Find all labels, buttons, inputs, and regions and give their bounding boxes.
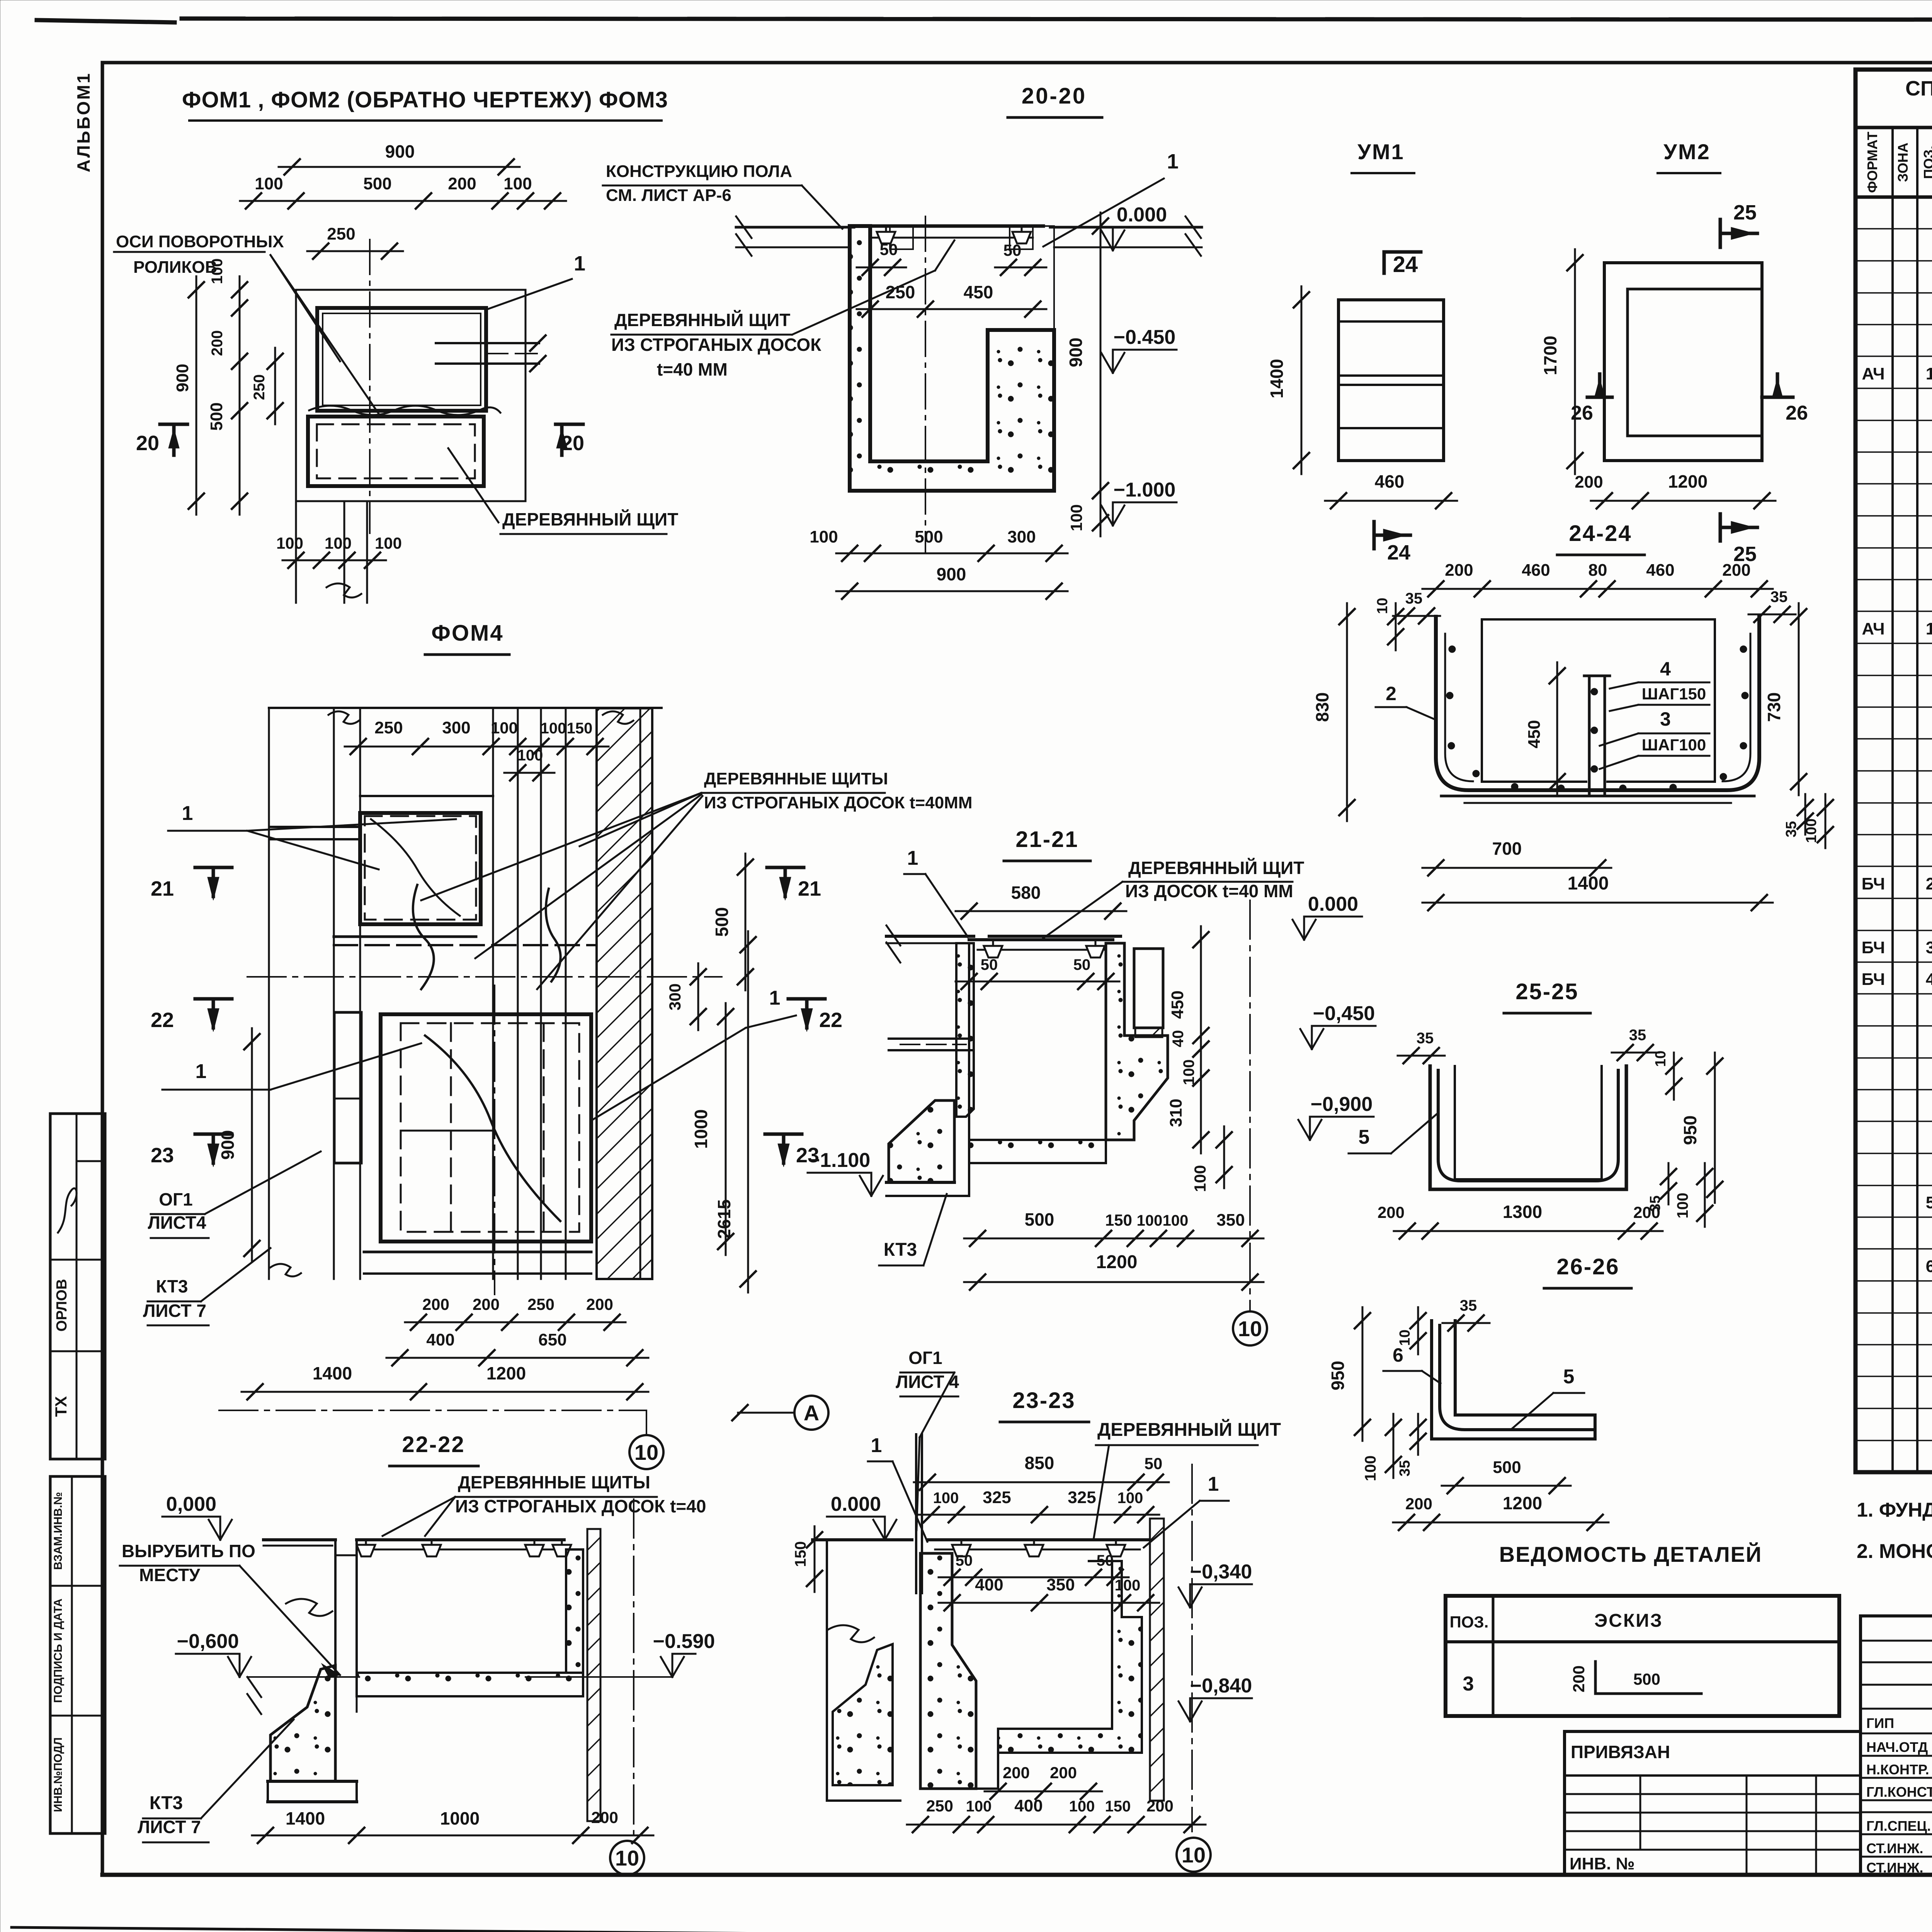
- svg-text:200: 200: [1570, 1665, 1588, 1692]
- svg-text:10: 10: [634, 1440, 658, 1464]
- 23-23 wavy break: [828, 1625, 874, 1642]
- svg-text:80: 80: [1588, 561, 1607, 580]
- svg-text:20-20: 20-20: [1022, 83, 1087, 109]
- svg-text:200: 200: [1050, 1764, 1077, 1782]
- svg-text:ВЕДОМОСТЬ ДЕТАЛЕЙ: ВЕДОМОСТЬ ДЕТАЛЕЙ: [1499, 1542, 1762, 1566]
- svg-text:900: 900: [218, 1130, 238, 1160]
- svg-text:250: 250: [251, 374, 268, 400]
- title block left signature table: [1861, 1616, 1932, 1875]
- svg-text:23: 23: [151, 1144, 174, 1167]
- svg-text:ЗОНА: ЗОНА: [1895, 143, 1911, 182]
- svg-text:200: 200: [591, 1808, 618, 1827]
- FOm4 pipe stub left: [270, 826, 360, 828]
- 20-20 floor right: [1050, 226, 1202, 229]
- 24-24 center bars: [1588, 676, 1591, 796]
- svg-text:Н.КОНТР.: Н.КОНТР.: [1866, 1762, 1929, 1777]
- svg-text:150: 150: [567, 720, 593, 737]
- svg-text:БЧ: БЧ: [1862, 938, 1885, 957]
- svg-text:ФОРМАТ: ФОРМАТ: [1864, 132, 1880, 193]
- svg-text:200: 200: [473, 1295, 500, 1313]
- svg-text:БЧ: БЧ: [1862, 874, 1885, 893]
- 23-23 axis + circle: [1191, 1464, 1193, 1832]
- svg-text:1200: 1200: [1096, 1252, 1138, 1272]
- svg-text:−0,840: −0,840: [1190, 1675, 1252, 1697]
- svg-text:0,000: 0,000: [166, 1493, 216, 1515]
- 23-23 board vertical: [915, 1434, 917, 1593]
- svg-text:5: 5: [1926, 1193, 1932, 1212]
- svg-text:0.000: 0.000: [1308, 893, 1358, 915]
- svg-text:35: 35: [1770, 588, 1788, 605]
- svg-text:1: 1: [1926, 364, 1932, 383]
- svg-text:500: 500: [1633, 1670, 1660, 1688]
- svg-text:1000: 1000: [440, 1808, 480, 1828]
- svg-text:ИНВ.№ПОДЛ: ИНВ.№ПОДЛ: [52, 1737, 65, 1812]
- svg-text:21: 21: [798, 877, 821, 900]
- svg-text:20: 20: [136, 432, 159, 455]
- svg-text:3: 3: [1660, 708, 1671, 730]
- svg-text:23-23: 23-23: [1012, 1388, 1075, 1413]
- svg-text:2615: 2615: [714, 1199, 734, 1239]
- 24-24 bottom bars: [1441, 795, 1754, 798]
- svg-text:200: 200: [1445, 561, 1473, 580]
- svg-text:1000: 1000: [691, 1109, 711, 1149]
- svg-text:950: 950: [1328, 1361, 1348, 1391]
- inv grid: [1565, 1774, 1860, 1777]
- svg-text:26: 26: [1786, 402, 1808, 424]
- 25-25 U form: [1430, 1066, 1626, 1189]
- svg-text:830: 830: [1312, 692, 1332, 722]
- svg-text:500: 500: [207, 402, 226, 430]
- svg-text:450: 450: [1168, 990, 1187, 1019]
- 26-26 angle form: [1432, 1321, 1595, 1439]
- svg-text:ДЕРЕВЯННЫЙ ЩИТ: ДЕРЕВЯННЫЙ ЩИТ: [1097, 1419, 1281, 1440]
- svg-text:200: 200: [1003, 1764, 1030, 1782]
- svg-text:−0.590: −0.590: [653, 1630, 715, 1653]
- svg-text:200: 200: [448, 174, 476, 193]
- svg-text:1400: 1400: [286, 1808, 325, 1828]
- 24-24 inner form rect: [1481, 619, 1483, 782]
- svg-text:2: 2: [1386, 683, 1396, 704]
- svg-text:СПЕЦИФИКАЦИЯ ФУНДАМЕНТОВ ПОД О: СПЕЦИФИКАЦИЯ ФУНДАМЕНТОВ ПОД ОБОРУДОВАНИ…: [1905, 77, 1932, 100]
- svg-text:580: 580: [1011, 883, 1041, 903]
- svg-text:УМ2: УМ2: [1663, 139, 1711, 164]
- svg-text:5: 5: [1563, 1366, 1575, 1388]
- svg-text:200: 200: [209, 330, 226, 356]
- svg-text:100: 100: [1362, 1456, 1379, 1481]
- svg-text:100: 100: [276, 534, 303, 552]
- svg-text:50: 50: [1073, 956, 1091, 973]
- svg-text:1400: 1400: [1267, 359, 1287, 398]
- svg-text:24: 24: [1393, 252, 1418, 277]
- svg-text:25-25: 25-25: [1515, 979, 1578, 1004]
- svg-text:300: 300: [442, 718, 470, 737]
- svg-text:26: 26: [1571, 402, 1593, 424]
- svg-text:КТ3: КТ3: [150, 1793, 183, 1813]
- svg-text:ОСИ ПОВОРОТНЫХ: ОСИ ПОВОРОТНЫХ: [116, 232, 284, 251]
- FOm4 left small rects: [334, 1012, 361, 1163]
- svg-text:ЛИСТ4: ЛИСТ4: [148, 1213, 206, 1233]
- svg-text:1: 1: [196, 1060, 207, 1083]
- FOm4 upper square box: [360, 795, 493, 797]
- svg-text:950: 950: [1680, 1116, 1700, 1145]
- svg-text:10: 10: [615, 1846, 639, 1870]
- svg-text:−0,900: −0,900: [1311, 1093, 1373, 1116]
- svg-text:ДЕРЕВЯННЫЙ ЩИТ: ДЕРЕВЯННЫЙ ЩИТ: [614, 310, 790, 330]
- svg-text:−0,340: −0,340: [1190, 1561, 1252, 1583]
- svg-text:МЕСТУ: МЕСТУ: [139, 1565, 201, 1585]
- svg-text:100: 100: [1115, 1577, 1141, 1594]
- svg-text:40: 40: [1170, 1030, 1187, 1048]
- svg-text:100: 100: [491, 719, 518, 737]
- svg-text:ТХ: ТХ: [52, 1396, 70, 1417]
- svg-text:50: 50: [880, 240, 898, 259]
- svg-text:ФОМ4: ФОМ4: [431, 621, 503, 646]
- svg-text:ЛИСТ 7: ЛИСТ 7: [143, 1301, 206, 1321]
- 21-21 pipe through: [889, 1037, 973, 1040]
- svg-text:ОГ1: ОГ1: [159, 1189, 192, 1209]
- svg-text:21: 21: [151, 877, 174, 900]
- 24-24 outer rebar U: [1436, 617, 1759, 790]
- svg-text:22: 22: [819, 1009, 842, 1032]
- 22-22 wavy break left wall: [286, 1599, 332, 1616]
- svg-text:2. МОНОЛИТНЫЕ УЧАСТКИ УМ1,У: 2. МОНОЛИТНЫЕ УЧАСТКИ УМ1,УМ2 ЗАМАРКИРОВ…: [1857, 1540, 1932, 1563]
- 22-22 top deck: [264, 1538, 335, 1541]
- svg-text:−0.450: −0.450: [1114, 326, 1176, 349]
- FOm1 wavy break on panel: [309, 406, 500, 415]
- svg-text:АЧ: АЧ: [1862, 619, 1884, 638]
- svg-text:ЛИСТ 7: ЛИСТ 7: [138, 1817, 201, 1837]
- svg-text:1200: 1200: [1503, 1493, 1542, 1513]
- svg-text:35: 35: [1460, 1297, 1477, 1314]
- svg-text:ФОМ1 , ФОМ2 (ОБРАТНО ЧЕРТЕЖУ): ФОМ1 , ФОМ2 (ОБРАТНО ЧЕРТЕЖУ) ФОМ3: [182, 87, 668, 112]
- svg-text:24: 24: [1387, 541, 1410, 564]
- svg-text:1. ФУНДАМЕНТЫ ФОМ1, ФОМ2,ФQМ3: 1. ФУНДАМЕНТЫ ФОМ1, ФОМ2,ФQМ3,ФОМ4 ЗАМАР…: [1857, 1499, 1932, 1521]
- svg-text:ИЗ ДОСОК t=40 ММ: ИЗ ДОСОК t=40 ММ: [1125, 881, 1293, 901]
- svg-text:0.000: 0.000: [1117, 204, 1167, 226]
- svg-text:35: 35: [1417, 1030, 1434, 1047]
- svg-text:100: 100: [1674, 1193, 1691, 1219]
- svg-text:ДЕРЕВЯННЫЕ ЩИТЫ: ДЕРЕВЯННЫЕ ЩИТЫ: [458, 1472, 650, 1492]
- svg-text:1: 1: [1208, 1473, 1219, 1495]
- svg-text:200: 200: [586, 1295, 613, 1313]
- svg-text:100: 100: [255, 174, 283, 193]
- svg-text:1: 1: [574, 252, 585, 275]
- svg-text:300: 300: [666, 983, 684, 1010]
- svg-text:100: 100: [1191, 1165, 1209, 1192]
- svg-text:500: 500: [1025, 1209, 1054, 1230]
- svg-text:5: 5: [1359, 1126, 1370, 1148]
- svg-text:325: 325: [983, 1488, 1011, 1507]
- svg-text:1: 1: [1926, 619, 1932, 638]
- svg-text:35: 35: [1405, 590, 1423, 607]
- FOm1 bottom projection lines: [295, 501, 297, 603]
- svg-text:ДЕРЕВЯННЫЙ ЩИТ: ДЕРЕВЯННЫЙ ЩИТ: [1128, 858, 1304, 878]
- svg-text:ВЗАМ.ИНВ.№: ВЗАМ.ИНВ.№: [52, 1492, 65, 1570]
- FOm1 centerlines: [369, 240, 371, 533]
- svg-text:100: 100: [375, 534, 402, 552]
- svg-text:0.000: 0.000: [831, 1493, 881, 1515]
- svg-text:ПОЗ.: ПОЗ.: [1450, 1613, 1489, 1631]
- svg-text:100: 100: [209, 259, 226, 284]
- 22-22 bottom slab: [357, 1673, 583, 1696]
- svg-text:460: 460: [1646, 561, 1674, 580]
- svg-text:100: 100: [810, 527, 838, 546]
- svg-text:450: 450: [964, 282, 993, 302]
- svg-text:КТ3: КТ3: [156, 1276, 188, 1296]
- svg-text:325: 325: [1068, 1488, 1096, 1507]
- FOm4 mid horizontal lines: [334, 935, 476, 938]
- 21-21 axis + circle 10: [1249, 900, 1251, 1310]
- svg-text:25: 25: [1733, 201, 1757, 224]
- svg-text:СТ.ИНЖ.: СТ.ИНЖ.: [1866, 1840, 1923, 1856]
- table row grid: [1855, 228, 1932, 230]
- svg-text:ГЛ.КОНСТР: ГЛ.КОНСТР: [1866, 1784, 1932, 1800]
- svg-text:100: 100: [503, 174, 532, 193]
- svg-text:900: 900: [173, 364, 192, 392]
- svg-text:1400: 1400: [1568, 873, 1609, 894]
- svg-text:6: 6: [1926, 1257, 1932, 1276]
- svg-text:ОРЛОВ: ОРЛОВ: [54, 1279, 70, 1332]
- privyazan box: [1565, 1730, 1860, 1733]
- 23-23 left old foundation outline: [826, 1540, 828, 1801]
- 22-22 left footing concrete: [270, 1665, 335, 1781]
- svg-text:СМ. ЛИСТ АР-6: СМ. ЛИСТ АР-6: [606, 186, 731, 205]
- svg-text:−1.100: −1.100: [808, 1149, 871, 1172]
- svg-text:50: 50: [1145, 1454, 1163, 1473]
- svg-text:10: 10: [1397, 1330, 1413, 1346]
- svg-text:310: 310: [1167, 1099, 1185, 1127]
- svg-text:22: 22: [151, 1009, 174, 1032]
- 21-21 deck + clamps: [969, 938, 1113, 941]
- svg-text:150: 150: [1105, 1211, 1132, 1229]
- svg-text:УМ1: УМ1: [1357, 139, 1405, 164]
- svg-text:ИНВ. №: ИНВ. №: [1570, 1854, 1635, 1873]
- svg-text:150: 150: [1105, 1798, 1131, 1815]
- svg-text:100: 100: [1180, 1060, 1197, 1085]
- FOm1 pipe lines right: [436, 342, 539, 344]
- svg-text:1: 1: [907, 847, 918, 869]
- svg-text:300: 300: [1007, 527, 1036, 546]
- svg-text:−0,450: −0,450: [1313, 1002, 1375, 1025]
- svg-text:6: 6: [1393, 1344, 1403, 1366]
- svg-text:ИЗ СТРОГАНЫХ ДОСОК t=40: ИЗ СТРОГАНЫХ ДОСОК t=40: [455, 1496, 706, 1516]
- svg-text:1300: 1300: [1503, 1202, 1542, 1222]
- svg-text:ШАГ100: ШАГ100: [1642, 736, 1706, 754]
- svg-text:10: 10: [1238, 1316, 1262, 1341]
- svg-text:ДЕРЕВЯННЫЕ ЩИТЫ: ДЕРЕВЯННЫЕ ЩИТЫ: [704, 769, 888, 788]
- svg-text:250: 250: [527, 1295, 554, 1313]
- svg-text:500: 500: [712, 907, 732, 937]
- svg-text:500: 500: [1493, 1458, 1521, 1477]
- inner drawing frame: [102, 61, 1932, 65]
- 23-23 deck: [813, 1538, 912, 1541]
- FOm1 plan outline: [296, 290, 526, 501]
- svg-text:250: 250: [926, 1797, 953, 1815]
- svg-text:1: 1: [1167, 150, 1179, 173]
- svg-text:ДЕРЕВЯННЫЙ ЩИТ: ДЕРЕВЯННЫЙ ЩИТ: [502, 509, 678, 529]
- 20-20 elevations: [1101, 230, 1113, 250]
- svg-text:200: 200: [422, 1295, 449, 1313]
- svg-text:ГИП: ГИП: [1866, 1715, 1894, 1731]
- svg-text:200: 200: [1575, 473, 1603, 492]
- svg-text:10: 10: [1653, 1051, 1669, 1067]
- svg-text:200: 200: [1405, 1495, 1432, 1513]
- svg-text:100: 100: [1117, 1490, 1143, 1507]
- svg-text:200: 200: [1722, 561, 1750, 580]
- 21-21 right concrete column: [1106, 943, 1168, 1140]
- svg-text:900: 900: [937, 564, 966, 584]
- svg-text:3: 3: [1926, 938, 1932, 957]
- svg-text:400: 400: [1014, 1796, 1043, 1815]
- svg-text:500: 500: [363, 174, 391, 193]
- svg-text:1700: 1700: [1540, 336, 1560, 375]
- svg-text:200: 200: [1378, 1203, 1405, 1221]
- svg-text:АЧ: АЧ: [1862, 364, 1884, 383]
- svg-text:ИЗ СТРОГАНЫХ ДОСОК t=40ММ: ИЗ СТРОГАНЫХ ДОСОК t=40ММ: [704, 793, 972, 812]
- 21-21 floor line: [886, 935, 974, 938]
- svg-text:850: 850: [1025, 1453, 1054, 1473]
- svg-text:СТ.ИНЖ.: СТ.ИНЖ.: [1866, 1860, 1923, 1876]
- svg-text:50: 50: [1003, 241, 1022, 259]
- 23-23 elevations right: [1179, 1587, 1190, 1607]
- svg-text:900: 900: [1066, 338, 1086, 367]
- svg-text:400: 400: [975, 1575, 1003, 1594]
- svg-text:А: А: [804, 1401, 819, 1425]
- FOm4 lower big box: [381, 1014, 591, 1242]
- 22-22 right wall concrete: [566, 1549, 583, 1673]
- svg-text:150: 150: [792, 1541, 809, 1567]
- svg-text:900: 900: [385, 141, 415, 162]
- svg-text:100: 100: [541, 720, 566, 737]
- svg-text:50: 50: [981, 956, 998, 973]
- svg-text:ЭСКИЗ: ЭСКИЗ: [1594, 1611, 1663, 1631]
- svg-text:ШАГ150: ШАГ150: [1642, 685, 1706, 703]
- svg-text:100: 100: [966, 1798, 992, 1815]
- svg-text:10: 10: [1182, 1843, 1206, 1867]
- 24-24 rebar dots: [1449, 646, 1456, 653]
- svg-text:КТ3: КТ3: [884, 1240, 917, 1260]
- svg-text:50: 50: [956, 1552, 973, 1569]
- svg-text:650: 650: [538, 1330, 566, 1349]
- specification table outer box: [1855, 70, 1932, 1472]
- 22-22 axis line + circles: [633, 1499, 634, 1838]
- svg-text:730: 730: [1764, 692, 1784, 722]
- svg-text:21-21: 21-21: [1015, 827, 1078, 852]
- svg-text:1200: 1200: [486, 1363, 526, 1383]
- svg-text:4: 4: [1660, 658, 1671, 680]
- svg-text:−1.000: −1.000: [1114, 479, 1176, 501]
- svg-text:4: 4: [1926, 970, 1932, 989]
- sheet outer bottom edge: [12, 1927, 1623, 1932]
- left stamp box TX/ORLOV: [50, 1114, 105, 1459]
- 23-23 concrete T section: [920, 1553, 976, 1789]
- svg-text:35: 35: [1629, 1027, 1646, 1044]
- 21-21 left pillar concrete: [956, 943, 974, 1117]
- svg-text:26-26: 26-26: [1556, 1254, 1619, 1279]
- svg-text:100: 100: [1163, 1212, 1189, 1229]
- svg-text:100: 100: [1067, 504, 1085, 531]
- svg-text:460: 460: [1522, 561, 1550, 580]
- svg-text:−0,600: −0,600: [177, 1630, 239, 1653]
- FOm4 top edge: [269, 707, 662, 709]
- svg-text:450: 450: [1525, 720, 1544, 748]
- svg-text:400: 400: [426, 1330, 454, 1349]
- FOm4 brick wall hatched: [597, 708, 652, 1279]
- svg-text:t=40 ММ: t=40 ММ: [657, 359, 728, 379]
- 20-20 concrete U body: [850, 226, 1054, 461]
- svg-text:ВЫРУБИТЬ ПО: ВЫРУБИТЬ ПО: [122, 1541, 255, 1561]
- poz/eskiz table: [1446, 1596, 1839, 1716]
- svg-text:1: 1: [182, 802, 193, 825]
- svg-text:350: 350: [1046, 1575, 1075, 1594]
- svg-text:ПОЗ.: ПОЗ.: [1921, 146, 1932, 179]
- 22-22 brick wall: [587, 1529, 600, 1821]
- table header band: [1855, 126, 1932, 129]
- svg-text:10: 10: [1374, 598, 1391, 614]
- svg-text:2: 2: [1926, 874, 1932, 893]
- svg-text:100: 100: [325, 534, 352, 552]
- sheet outer top edge: [37, 20, 175, 22]
- svg-text:1400: 1400: [313, 1363, 352, 1383]
- svg-text:100: 100: [517, 747, 543, 764]
- 22-22 elevation 0,000: [209, 1520, 220, 1540]
- 23-23 brick wall hatched: [1150, 1519, 1164, 1801]
- svg-text:250: 250: [327, 224, 355, 243]
- svg-text:КОНСТРУКЦИЮ ПОЛА: КОНСТРУКЦИЮ ПОЛА: [606, 162, 792, 181]
- axis A circle: [794, 1396, 828, 1430]
- svg-text:700: 700: [1492, 838, 1522, 859]
- 20-20 floor left: [736, 226, 854, 229]
- svg-text:100: 100: [1137, 1212, 1163, 1229]
- svg-text:100: 100: [933, 1490, 959, 1507]
- svg-text:1: 1: [769, 987, 781, 1009]
- 21-21 bottom slab: [969, 1140, 1106, 1163]
- 22-22 level line -0.600: [247, 1676, 359, 1678]
- svg-text:460: 460: [1375, 471, 1405, 492]
- svg-text:50: 50: [1097, 1552, 1114, 1569]
- svg-text:ГЛ.СПЕЦ.: ГЛ.СПЕЦ.: [1866, 1818, 1931, 1834]
- svg-text:500: 500: [915, 527, 943, 546]
- svg-text:24-24: 24-24: [1569, 521, 1632, 546]
- svg-text:100: 100: [1069, 1798, 1095, 1815]
- FOm4 wall verticals: [268, 708, 270, 1279]
- 22-22 left pit walls: [334, 1540, 337, 1781]
- svg-text:3: 3: [1463, 1673, 1474, 1695]
- 21-21 elevations: [1293, 920, 1304, 940]
- svg-text:200: 200: [1146, 1797, 1173, 1815]
- svg-text:НАЧ.ОТД: НАЧ.ОТД: [1866, 1739, 1928, 1755]
- left stamp box inv/podpis/vzam: [50, 1476, 105, 1833]
- svg-text:РОЛИКОВ: РОЛИКОВ: [133, 258, 217, 277]
- svg-text:1: 1: [871, 1434, 882, 1457]
- svg-text:350: 350: [1216, 1211, 1245, 1230]
- svg-text:ОГ1: ОГ1: [908, 1348, 942, 1368]
- 20-20 centerline: [925, 216, 926, 553]
- svg-text:22-22: 22-22: [402, 1432, 465, 1457]
- svg-text:ИЗ СТРОГАНЫХ ДОСОК: ИЗ СТРОГАНЫХ ДОСОК: [611, 335, 821, 355]
- svg-text:35: 35: [1397, 1460, 1413, 1476]
- svg-text:1200: 1200: [1668, 471, 1708, 492]
- 21-21 left footing: [889, 1100, 954, 1182]
- svg-text:БЧ: БЧ: [1862, 970, 1885, 989]
- svg-text:ПОДПИСЬ И ДАТА: ПОДПИСЬ И ДАТА: [52, 1599, 65, 1703]
- 23-23 elevation 0.000: [873, 1520, 885, 1540]
- 20-20 wood deck top: [862, 224, 1043, 228]
- FOm1 wood panel dashed: [308, 417, 484, 486]
- svg-text:АЛЬБОМ1: АЛЬБОМ1: [73, 72, 94, 172]
- svg-text:ПРИВЯЗАН: ПРИВЯЗАН: [1571, 1742, 1670, 1762]
- svg-text:250: 250: [374, 718, 403, 737]
